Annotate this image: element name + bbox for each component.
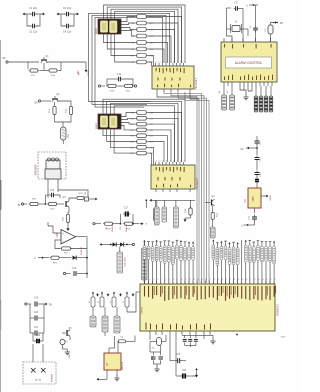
wire display1 left bus — [89, 13, 170, 107]
svg-text:C20: C20 — [34, 311, 39, 314]
resistor R29 — [123, 222, 139, 230]
MCU left label — [142, 306, 144, 313]
capacitor C23 — [150, 342, 156, 360]
wire speaker to amp — [48, 186, 88, 198]
connector J12 — [90, 307, 96, 327]
power 5V arrow top right — [271, 21, 284, 25]
MCU bottom pins — [146, 323, 211, 336]
switch S1 — [219, 86, 226, 110]
wire J7 — [143, 240, 145, 283]
capacitor C15 — [46, 189, 61, 204]
regulator U7 — [104, 353, 124, 370]
capacitor C26 — [176, 352, 192, 379]
ground bottom left — [63, 349, 72, 358]
filter group C14 R19 R20 — [98, 73, 136, 93]
svg-text:8: 8 — [173, 62, 174, 64]
svg-text:15: 15 — [201, 279, 203, 281]
resistor R28 — [103, 222, 114, 230]
node 5V top right — [246, 4, 258, 8]
svg-text:5: 5 — [184, 62, 185, 64]
decoder U3 74LS247 — [151, 161, 199, 193]
wire nest display1 to U2 — [104, 5, 186, 63]
diode D2 — [120, 242, 134, 246]
ground below U4 — [240, 86, 249, 100]
svg-text:C26: C26 — [182, 370, 187, 372]
svg-text:11: 11 — [162, 161, 164, 163]
wire Q3 emitter — [68, 207, 69, 214]
svg-text:C3 22p: C3 22p — [63, 6, 72, 10]
node below MCU right — [236, 334, 286, 339]
capacitor C6 — [250, 5, 258, 42]
transistor Q5 — [62, 328, 72, 340]
svg-text:6: 6 — [180, 62, 181, 64]
svg-text:13: 13 — [155, 161, 157, 163]
svg-text:IN: IN — [18, 204, 21, 207]
crystal X1 — [227, 21, 249, 37]
wire mcu bottom mid — [170, 335, 176, 358]
ground below R26 — [66, 223, 69, 232]
capacitor C17 — [121, 207, 134, 224]
resistor R24 — [47, 202, 58, 210]
arrow right sensor — [140, 222, 148, 226]
op-amp U6A — [56, 230, 76, 245]
svg-text:LM7805: LM7805 — [122, 361, 124, 370]
svg-text:DISP2: DISP2 — [96, 122, 98, 129]
svg-text:16: 16 — [205, 279, 207, 281]
terminal 5V left — [2, 57, 39, 63]
terminal X marker 1 — [31, 368, 36, 373]
resistor R27 feedback — [55, 240, 87, 255]
svg-text:9: 9 — [170, 161, 171, 163]
svg-text:9: 9 — [170, 62, 171, 64]
svg-text:+: + — [62, 232, 64, 236]
svg-text:POWER: POWER — [52, 373, 54, 382]
label D1 — [106, 223, 114, 231]
resistor R17 — [28, 62, 44, 77]
transistor Q4 — [205, 195, 215, 206]
label net — [78, 70, 80, 74]
svg-text:C18 100u: C18 100u — [125, 256, 127, 266]
wire junction 2 — [114, 223, 121, 225]
svg-text:C17: C17 — [124, 207, 129, 210]
svg-text:C1 22p: C1 22p — [29, 6, 38, 10]
capacitor C8 — [255, 136, 263, 155]
display DISP2 dual 7-segment — [96, 114, 121, 129]
connector J11 — [210, 220, 215, 238]
capacitor bank C27-C29 — [183, 335, 198, 347]
svg-text:5V: 5V — [280, 22, 283, 25]
buzzer LS2 — [45, 158, 61, 186]
svg-text:GND: GND — [281, 337, 286, 339]
terminal marks above RN1 — [143, 239, 275, 244]
svg-text:14: 14 — [197, 279, 199, 281]
ground right rail — [210, 335, 215, 344]
svg-text:−: − — [62, 239, 64, 243]
node below U5 — [241, 224, 254, 228]
jumper J5 — [84, 193, 98, 202]
wire — [203, 335, 205, 339]
resistor R26 — [63, 215, 70, 223]
capacitor C1/C2 group — [23, 6, 46, 34]
resistor R31 — [211, 206, 218, 221]
wire rail bottom — [182, 334, 213, 336]
svg-text:DISP1: DISP1 — [96, 27, 98, 34]
pull-up resistor network RN1 — [143, 245, 275, 266]
power connector box — [23, 362, 56, 384]
crystal X2 — [150, 335, 166, 350]
resistors left of MCU — [89, 292, 134, 308]
ground right C26 — [192, 368, 198, 378]
node mic bias — [34, 257, 43, 260]
svg-text:10: 10 — [166, 161, 168, 163]
svg-text:5: 5 — [184, 161, 185, 163]
wire to MCU left — [127, 292, 140, 312]
decoder U2 74LS247 — [152, 62, 198, 93]
transistor Q1 — [41, 55, 49, 63]
diode D3 — [73, 256, 88, 260]
svg-text:SPEAKER: SPEAKER — [35, 164, 38, 175]
terminal U7 left — [97, 370, 108, 381]
svg-text:13: 13 — [155, 62, 157, 64]
wire op-amp out — [76, 237, 88, 247]
transistor Q3 — [58, 196, 69, 207]
resistor R18 — [44, 62, 61, 77]
transistor Q2 — [52, 93, 60, 102]
wire Q2 right — [58, 101, 71, 106]
clock IC U4 — [221, 38, 277, 86]
fuse F1 — [60, 339, 69, 349]
svg-text:C16: C16 — [72, 267, 77, 270]
capacitor C25 — [170, 354, 186, 363]
display DISP1 dual 7-segment — [96, 19, 121, 34]
svg-text:12: 12 — [159, 161, 161, 163]
terminal X marker 2 — [35, 368, 45, 382]
resistor R22 — [66, 107, 73, 119]
svg-text:8: 8 — [173, 161, 174, 163]
wire crystal to U4 — [227, 29, 271, 42]
capacitor C5 top right — [227, 2, 244, 30]
svg-text:1N4148: 1N4148 — [112, 223, 114, 231]
svg-text:AC IN: AC IN — [35, 379, 41, 382]
svg-text:C25: C25 — [176, 354, 181, 356]
connector block J1-J4 — [254, 86, 273, 112]
switch S2 — [227, 86, 234, 110]
capacitor C3/C4 group — [57, 6, 80, 34]
terminal sensor — [93, 223, 101, 225]
wire down from C16 — [86, 270, 88, 278]
svg-text:GND: GND — [88, 70, 90, 75]
svg-text:74LS247: 74LS247 — [194, 78, 198, 90]
svg-text:7: 7 — [177, 161, 178, 163]
capacitor C11 polarized — [255, 180, 259, 189]
svg-text:7: 7 — [177, 62, 178, 64]
wire stub — [151, 356, 153, 360]
capacitor C13 below U5 — [249, 208, 258, 225]
ground arrow right of Q1 — [85, 62, 90, 75]
wire to LED — [55, 118, 72, 127]
connector J8 — [155, 200, 160, 225]
svg-text:C2 22p: C2 22p — [29, 30, 38, 34]
wire R1-R8 to U2 — [148, 17, 181, 67]
label D3 — [81, 246, 83, 254]
ground below crystals — [153, 360, 160, 372]
regulator U5 7805 — [244, 188, 272, 208]
svg-text:5V: 5V — [2, 57, 5, 60]
svg-text:C22: C22 — [36, 335, 41, 337]
wire power up — [33, 344, 43, 362]
svg-text:5V: 5V — [49, 304, 52, 307]
ground below U7 — [114, 370, 119, 381]
wire R column to DISP2 — [103, 113, 135, 154]
diode D1 — [111, 242, 120, 246]
label D2 — [120, 223, 128, 231]
wire R9-R16 to U3 — [148, 113, 181, 166]
wire RV1 to D3 — [61, 257, 72, 259]
connector J13 — [102, 307, 108, 336]
capacitor C20 — [30, 304, 44, 321]
resistor R30 — [185, 200, 192, 216]
MCU top pins — [145, 279, 276, 284]
svg-text:RESET: RESET — [142, 306, 144, 313]
capacitor C9 — [255, 156, 263, 171]
diode D4 — [118, 336, 136, 354]
wire MCU top pins — [145, 240, 275, 284]
speaker box outline — [35, 152, 67, 179]
connector J6 — [154, 200, 158, 220]
wire U7 input — [109, 336, 115, 353]
sounder LS1 — [61, 127, 71, 144]
wire bus below U3 — [150, 199, 196, 202]
connector J10 — [174, 200, 179, 228]
connector J7 — [142, 248, 148, 280]
svg-text:5V: 5V — [34, 102, 37, 105]
svg-text:10: 10 — [166, 62, 168, 64]
wire Q1 collector right — [47, 61, 86, 63]
svg-text:6: 6 — [180, 161, 181, 163]
power arrow mid right — [241, 147, 258, 151]
capacitor C24 — [156, 335, 166, 359]
svg-text:C15: C15 — [50, 189, 55, 192]
wire junction — [40, 203, 47, 205]
label SP — [79, 72, 81, 75]
node mid — [145, 199, 147, 208]
wire U4 misc pins — [248, 86, 252, 91]
svg-text:ALARM CONTROL: ALARM CONTROL — [235, 61, 263, 65]
wire bus vertical to MCU — [164, 92, 209, 283]
connector J9 — [162, 200, 167, 222]
preset RV1 — [43, 256, 61, 264]
MCU top pin labels — [145, 286, 276, 301]
svg-text:5V: 5V — [241, 148, 244, 151]
wire node down — [86, 247, 88, 270]
wire nest display2 to U3 — [103, 99, 185, 162]
capacitor C19 — [25, 297, 53, 307]
svg-text:1N4148: 1N4148 — [126, 223, 128, 231]
svg-text:17: 17 — [209, 279, 211, 281]
svg-text:LS1: LS1 — [68, 133, 70, 138]
svg-text:11: 11 — [162, 62, 164, 64]
resistor R23 — [29, 199, 40, 206]
svg-text:12: 12 — [159, 62, 161, 64]
capacitor C10 — [255, 171, 263, 180]
resistor R21 — [49, 102, 56, 122]
MCU U1 AT89C51 — [140, 284, 280, 331]
resistor column R9-R16 — [130, 111, 154, 155]
svg-text:GND: GND — [270, 195, 272, 200]
svg-text:GND: GND — [69, 353, 71, 358]
ground below R30 — [184, 217, 191, 223]
resistor R25 — [69, 193, 88, 201]
svg-text:C4 22p: C4 22p — [63, 30, 72, 34]
svg-text:C19: C19 — [34, 297, 39, 300]
svg-text:1N4148: 1N4148 — [81, 246, 83, 254]
capacitor C16 — [63, 267, 88, 276]
scan edge artifact left — [0, 40, 2, 392]
wire diode row left — [100, 243, 112, 246]
svg-text:C21: C21 — [34, 326, 39, 329]
terminal 5V left 2 — [34, 100, 51, 105]
resistor column R1-R8 — [131, 15, 153, 64]
svg-text:7805: 7805 — [253, 196, 255, 202]
wire bus vertical 2 — [197, 97, 199, 283]
wire op-amp plus — [48, 222, 57, 233]
wire R column to DISP1 — [104, 17, 135, 63]
connector J14 — [114, 307, 120, 333]
capacitor C21 — [30, 318, 44, 336]
capacitor C7 electrolytic — [265, 25, 273, 38]
svg-text:C14: C14 — [117, 73, 122, 76]
capacitor C22 — [33, 333, 43, 343]
svg-text:AT89C51: AT89C51 — [276, 304, 280, 316]
wire U2 outputs down — [157, 92, 199, 99]
wire diodes down — [119, 247, 121, 252]
terminal mic in — [18, 203, 27, 207]
capacitor C18 electrolytic — [117, 252, 127, 273]
